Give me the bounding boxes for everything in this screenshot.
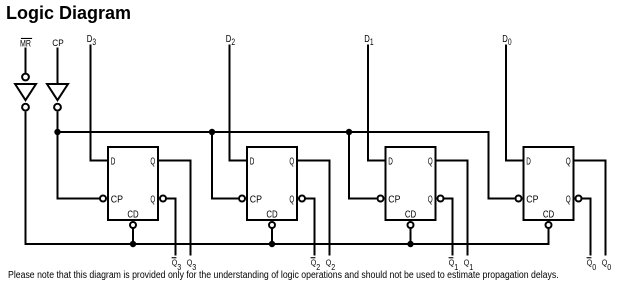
svg-text:CP: CP [250, 194, 262, 205]
output label Q1-bar [449, 257, 459, 272]
D latch 4 (bit 0) body [516, 147, 582, 228]
svg-text:Q0: Q0 [602, 257, 612, 272]
junction CD rail latch 2 [269, 241, 275, 247]
junction CP rail branch 2 [209, 129, 215, 135]
net label D2 [226, 34, 235, 47]
junction CP rail / inverter output [54, 129, 60, 135]
svg-text:D: D [526, 157, 531, 168]
wire Q2 output [297, 161, 330, 256]
svg-text:CP: CP [388, 194, 400, 205]
svg-text:CD: CD [266, 210, 277, 221]
CD pin bubble [546, 222, 552, 228]
wire CP inverter output to latch 1 CP pin [58, 112, 100, 199]
wire D0 input to latch 4 D pin [506, 45, 525, 161]
net label MR (active low master reset) [20, 38, 32, 49]
wire MR inverter output down left side [25, 112, 27, 244]
wire Q1-bar output [444, 199, 453, 256]
wire D3 input to latch 1 D pin [91, 45, 110, 161]
CP pin bubble [100, 196, 106, 202]
wire CD rail (master reset) to latch 4 CD pin [25, 229, 549, 245]
output label Q1 [464, 257, 474, 272]
svg-text:CP: CP [52, 38, 64, 48]
svg-text:Q: Q [566, 156, 571, 167]
wire CP branch to latch 2 CP pin [212, 132, 238, 199]
wire CP branch to latch 3 CP pin [349, 132, 377, 199]
wire Q0-bar output [582, 199, 591, 256]
CP pin bubble [516, 196, 522, 202]
svg-text:Q: Q [428, 156, 433, 167]
svg-text:Q: Q [150, 194, 155, 205]
net label CP (clock pulse) [52, 38, 64, 48]
Q-bar pin bubble [438, 196, 444, 202]
wire MR label to inverter input bubble [25, 48, 27, 74]
output label Q2-bar [311, 257, 321, 272]
D latch 3 (bit 1) body [378, 147, 444, 228]
CD pin bubble [408, 222, 414, 228]
svg-text:CD: CD [543, 210, 554, 221]
wire D2 input to latch 2 D pin [230, 45, 249, 161]
inverter U2 (CP) with output bubble [47, 84, 68, 111]
inverter U1 (MR) with input and output bubbles [15, 74, 36, 111]
svg-text:CP: CP [111, 194, 123, 205]
svg-text:Q: Q [428, 194, 433, 205]
wire CD stub latch 1 [132, 229, 134, 245]
svg-text:CD: CD [405, 210, 416, 221]
output label Q3 [187, 257, 197, 272]
CD pin bubble [130, 222, 136, 228]
wire Q3 output [158, 161, 191, 256]
wire Q1 output [436, 161, 468, 256]
wire Q0 output [574, 161, 606, 256]
junction CD rail latch 1 [130, 241, 136, 247]
svg-text:Q: Q [150, 156, 155, 167]
svg-text:Q0: Q0 [587, 257, 597, 272]
wire Q2-bar output [305, 199, 315, 256]
output label Q3-bar [172, 257, 182, 272]
svg-text:D: D [388, 157, 393, 168]
output label Q0-bar [587, 257, 597, 272]
title: Logic Diagram [6, 3, 131, 24]
note text [8, 270, 559, 281]
svg-text:CP: CP [526, 194, 538, 205]
output label Q2 [326, 257, 336, 272]
junction CP rail branch 3 [346, 129, 352, 135]
svg-text:CD: CD [127, 210, 138, 221]
Q-bar pin bubble [160, 196, 166, 202]
wire CD stub latch 3 [410, 229, 412, 245]
wire CP label to inverter U2 [57, 48, 59, 85]
Q-bar pin bubble [299, 196, 305, 202]
svg-text:D: D [250, 157, 255, 168]
svg-text:Q: Q [566, 194, 571, 205]
CD pin bubble [269, 222, 275, 228]
wire Q3-bar output [166, 199, 176, 256]
net label D0 [502, 34, 511, 47]
CP pin bubble [378, 196, 384, 202]
D latch 1 (bit 3) body [100, 147, 166, 228]
svg-text:MR: MR [20, 38, 31, 48]
junction CD rail latch 3 [407, 241, 413, 247]
svg-text:D: D [111, 157, 116, 168]
CP pin bubble [239, 196, 245, 202]
net label D3 [87, 34, 96, 47]
output label Q0 [602, 257, 612, 272]
svg-text:Q: Q [289, 156, 294, 167]
wire D1 input to latch 3 D pin [368, 45, 387, 161]
svg-text:Q: Q [289, 194, 294, 205]
wire CP rail to latch 4 CP pin [58, 132, 515, 199]
net label D1 [364, 34, 373, 47]
wire CD stub latch 2 [271, 229, 273, 245]
Q-bar pin bubble [576, 196, 582, 202]
D latch 2 (bit 2) body [239, 147, 305, 228]
